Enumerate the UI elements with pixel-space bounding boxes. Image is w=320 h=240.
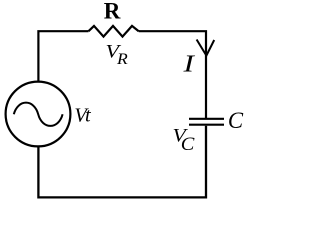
svg-text:I: I <box>182 51 195 78</box>
current I arrowhead (downward) <box>197 40 215 56</box>
wire from capacitor bottom back to source (bottom return) <box>38 126 206 198</box>
svg-text:R: R <box>116 50 128 68</box>
svg-text:C: C <box>181 135 196 155</box>
wire from resistor to capacitor top (node B) <box>139 31 206 118</box>
voltage label VC <box>173 126 196 155</box>
voltage label VR <box>105 42 127 68</box>
AC source sine symbol <box>14 103 63 126</box>
AC voltage source Vt (circle) <box>6 82 71 147</box>
svg-text:C: C <box>228 108 244 133</box>
capacitor C bottom plate <box>189 124 224 126</box>
resistor R <box>89 26 139 37</box>
capacitor C top plate <box>189 118 224 120</box>
wire from source top to resistor (node A) <box>38 31 88 82</box>
svg-text:R: R <box>104 0 121 24</box>
